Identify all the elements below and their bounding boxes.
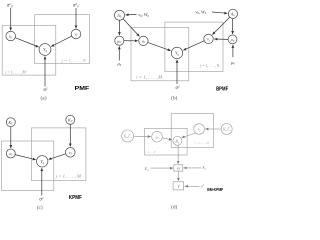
caption (d) — [171, 203, 177, 210]
svg-text:i = 1, . . . , N: i = 1, . . . , N — [145, 150, 156, 155]
label mu0 right (b) — [231, 60, 235, 66]
node K_V (c) — [66, 115, 75, 124]
node Y_ij (c) — [37, 156, 48, 167]
svg-text:ν0, W0: ν0, W0 — [195, 9, 206, 15]
plate j (a) right — [35, 15, 90, 64]
svg-text:σ2: σ2 — [201, 183, 205, 188]
wire U_i to Y_ij (a) — [15, 38, 38, 47]
svg-text:(c): (c) — [37, 204, 43, 211]
label K_u (d) — [144, 166, 150, 172]
svg-text:μ0: μ0 — [117, 61, 121, 67]
plate label j=1..M (d) — [194, 141, 210, 146]
svg-text:Kv: Kv — [201, 165, 207, 171]
svg-text:σ2U: σ2U — [7, 2, 14, 9]
node R_ij (d) — [173, 136, 182, 145]
label nu0,W0 left (b) — [138, 12, 149, 18]
wire hyperV to V_j (d) — [205, 128, 221, 130]
svg-text:(d): (d) — [171, 203, 177, 210]
wire sigma_U^2 to U_i (a) — [10, 8, 12, 30]
wire mu_U to U_i (b) — [124, 40, 138, 42]
wire mu0 to mu_U (b) — [118, 46, 120, 60]
wire V_j to Y_ij (c) — [49, 154, 66, 160]
wire nu0W0 to Lambda_U (b) — [126, 13, 137, 16]
node V_j (d) — [194, 124, 205, 135]
title KPMF — [69, 195, 83, 201]
node hyper U (d) — [122, 130, 134, 142]
wire R_ij to Theta box (d) — [177, 145, 179, 164]
box Y (d) — [173, 182, 184, 190]
node Y_ij (a) — [39, 44, 51, 56]
label sigma_U^2 (a) — [7, 2, 14, 9]
node U_i (b) — [139, 36, 148, 45]
node V_j (c) — [66, 148, 76, 158]
wire K_V to V_j (c) — [69, 124, 71, 146]
label nu0,W0 right (b) — [195, 9, 206, 15]
svg-text:σ2: σ2 — [175, 84, 179, 91]
wire Lambda_V to mu_V (b) — [232, 19, 234, 34]
svg-text:Y: Y — [177, 184, 180, 189]
svg-text:σ2: σ2 — [39, 196, 43, 203]
plate label j=1..N (a) — [60, 58, 86, 64]
wire mu0 to mu_V (b) — [232, 45, 234, 57]
svg-text:Θ: Θ — [177, 166, 180, 171]
svg-text:μ0: μ0 — [231, 60, 235, 66]
plate j (c) right — [32, 128, 86, 181]
svg-text:i = 1, . . . , M: i = 1, . . . , M — [136, 74, 163, 80]
wire U_i to R_ij (d) — [162, 138, 172, 140]
node mu_V (b) — [228, 35, 237, 44]
wire mu_V to V_j (b) — [214, 38, 228, 40]
wire sigma^2 to Y_ij (a) — [44, 56, 46, 86]
node mu_U (b) — [115, 36, 124, 45]
wire Theta to Y (d) — [177, 171, 179, 181]
svg-text:Ku: Ku — [144, 166, 150, 172]
svg-text:KPMF: KPMF — [69, 195, 83, 201]
svg-text:i = 1, . . . , M: i = 1, . . . , M — [5, 70, 26, 76]
svg-text:BM-KPMF: BM-KPMF — [207, 187, 223, 192]
svg-text:j = 1, . . . , M: j = 1, . . . , M — [194, 141, 210, 146]
svg-text:j = 1, . . . , N: j = 1, . . . , N — [199, 64, 220, 69]
plate i (c) left — [2, 141, 54, 191]
plate i (a) left — [2, 25, 56, 75]
caption (a) — [41, 94, 47, 101]
wire U_i to Y_ij (c) — [15, 155, 36, 160]
plate label i=1..M (b) — [136, 74, 163, 80]
title PMF — [75, 86, 90, 92]
label sigma^2 (b) — [175, 84, 179, 91]
plate j (b) right — [165, 22, 223, 71]
svg-text:j = 1, . . . , N: j = 1, . . . , N — [60, 58, 86, 64]
node V_j (b) — [204, 34, 213, 43]
svg-text:PMF: PMF — [75, 86, 90, 92]
wire sigma^2 to Y_ij (b) — [176, 60, 178, 84]
wire Lambda_U to mu_U (b) — [118, 20, 120, 35]
wire sigma^2 to Y_ij (c) — [41, 168, 43, 195]
plate label i=1..M (a) — [5, 70, 26, 76]
node U_i (c) — [6, 149, 15, 158]
node Lambda_U (b) — [115, 10, 125, 20]
label sigma^2 (d) — [201, 183, 205, 188]
node K_U (c) — [6, 118, 15, 127]
box Theta (d) — [174, 165, 183, 171]
wire K_v to Theta (d) — [184, 167, 202, 169]
wire V_j to Y_ij (a) — [51, 36, 72, 46]
label sigma_V^2 (a) — [73, 2, 80, 9]
node Y_ij (b) — [171, 47, 182, 58]
svg-text:σ2V: σ2V — [73, 2, 80, 9]
wire K_u to Theta (d) — [151, 167, 173, 169]
wire Lambda_U to U_i (b) — [123, 19, 139, 37]
wire hyperU to U_i (d) — [134, 135, 151, 137]
node hyper V (d) — [221, 124, 232, 135]
node V_j (a) — [71, 29, 81, 39]
wire Lambda_V to V_j (b) — [212, 17, 229, 34]
svg-text:(b): (b) — [171, 94, 177, 101]
plate label i=1..N (d) — [145, 150, 156, 155]
label sigma^2 (c) — [39, 196, 43, 203]
plate label j=1..N (b) — [199, 64, 220, 69]
title BM-KPMF — [207, 187, 223, 192]
title BPMF — [216, 87, 228, 93]
plate i (d) left — [145, 128, 188, 155]
plate i (b) left — [131, 27, 189, 81]
label K_v (d) — [201, 165, 207, 171]
node U_i (d) — [152, 131, 163, 142]
svg-text:σ2: σ2 — [43, 86, 47, 93]
label sigma^2 (a) — [43, 86, 47, 93]
svg-text:(a): (a) — [41, 94, 47, 101]
svg-text:j = 1, . . . , M: j = 1, . . . , M — [55, 174, 82, 180]
wire sigma_V^2 to V_j (a) — [75, 8, 77, 28]
svg-text:ν0, W0: ν0, W0 — [138, 12, 149, 18]
wire V_j to Y_ij (b) — [183, 41, 204, 50]
node Lambda_V (b) — [228, 9, 237, 18]
caption (b) — [171, 94, 177, 101]
wire K_U to U_i (c) — [10, 127, 12, 148]
svg-text:BPMF: BPMF — [216, 87, 228, 93]
wire V_j to R_ij (d) — [182, 133, 196, 138]
plate label j=1..M (c) — [55, 174, 82, 180]
label mu0 left (b) — [117, 61, 121, 67]
plate j (d) right — [171, 114, 214, 148]
wire U_i to Y_ij (b) — [148, 42, 171, 50]
caption (c) — [37, 204, 43, 211]
node U_i (a) — [6, 31, 16, 41]
wire sigma^2 to Y (d) — [185, 185, 200, 187]
wire nu0W0 to Lambda_V (b) — [212, 12, 227, 13]
